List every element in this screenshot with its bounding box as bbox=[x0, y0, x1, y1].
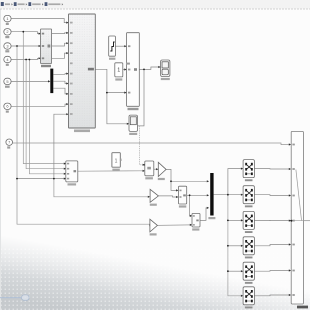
svg-text:1: 1 bbox=[6, 16, 8, 21]
svg-text:2: 2 bbox=[6, 29, 8, 34]
svg-text:1: 1 bbox=[117, 68, 120, 74]
svg-text:6: 6 bbox=[6, 104, 8, 109]
svg-text:7: 7 bbox=[8, 140, 10, 145]
svg-text:1: 1 bbox=[115, 158, 118, 164]
svg-text:3: 3 bbox=[6, 43, 8, 48]
svg-text:5: 5 bbox=[6, 79, 8, 84]
